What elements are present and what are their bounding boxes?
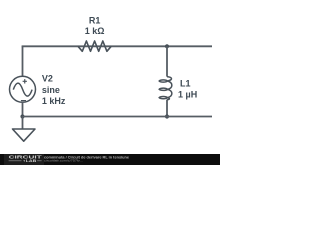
footer logo LAB — [9, 160, 42, 162]
svg-text:V2: V2 — [42, 74, 53, 84]
V2 minus sign — [21, 100, 26, 102]
wire top-left vertical — [22, 46, 24, 76]
svg-text:LAB: LAB — [26, 159, 37, 163]
node junction ground — [20, 114, 24, 118]
svg-text:L1: L1 — [180, 79, 191, 89]
svg-text:R1: R1 — [89, 16, 101, 26]
inductor L1 — [159, 77, 172, 100]
resistor R1 — [78, 41, 111, 51]
voltage source V2 circle — [10, 76, 36, 102]
footer bar — [0, 154, 220, 165]
svg-text:1 kHz: 1 kHz — [42, 96, 66, 106]
svg-text:1 kΩ: 1 kΩ — [85, 26, 105, 36]
wire bottom rail — [23, 116, 213, 118]
svg-text:sine: sine — [42, 85, 60, 95]
ground — [22, 117, 24, 130]
node junction bottom (L1/rail) — [165, 114, 169, 118]
V2 plus sign — [23, 79, 27, 83]
svg-text:1 µH: 1 µH — [178, 90, 197, 100]
wire inductor top — [166, 46, 168, 76]
V2 sine waveform — [13, 83, 32, 96]
svg-text:circuitlab.com/c/757fz...: circuitlab.com/c/757fz... — [44, 159, 83, 163]
wire inductor bottom — [166, 100, 168, 117]
node junction top (R1/L1) — [165, 44, 169, 48]
wire source bottom — [22, 102, 24, 116]
wire top rail — [22, 45, 212, 47]
